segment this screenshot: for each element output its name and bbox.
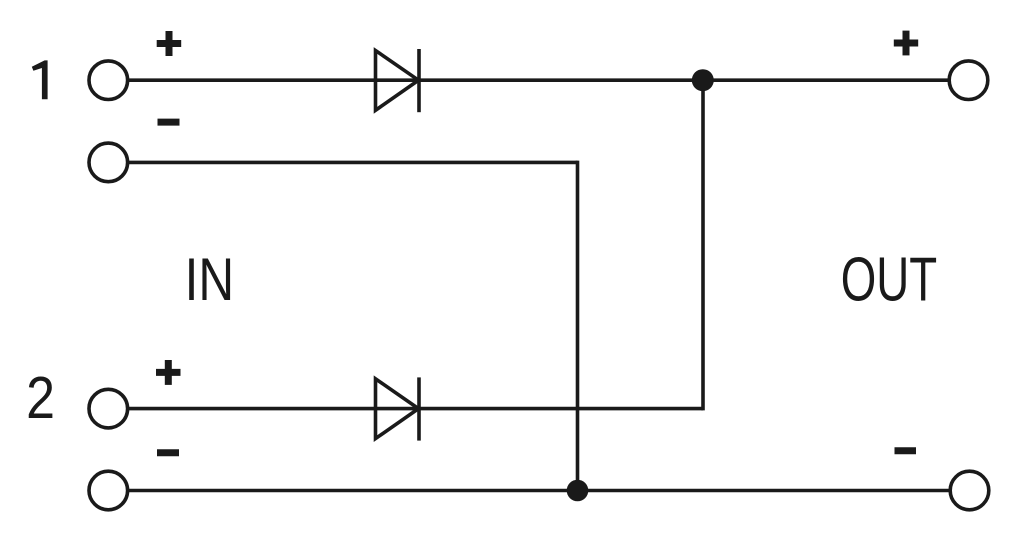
junction node B — [567, 480, 589, 502]
terminal circle IN1+ — [89, 61, 128, 100]
diode D2 cathode bar — [417, 377, 421, 440]
wire IN2+ horizontal — [108, 407, 703, 411]
minus sign IN1- — [158, 119, 180, 126]
wire IN1- vertical drop to node B — [576, 161, 580, 491]
terminal circle OUT- — [950, 471, 989, 510]
terminal circle IN2+ — [89, 389, 128, 428]
plus sign OUT+ — [894, 31, 918, 56]
svg-text:2: 2 — [26, 365, 55, 431]
minus sign OUT- — [895, 447, 917, 454]
terminal circle IN1- — [89, 143, 128, 182]
terminal circle OUT+ — [949, 61, 988, 100]
terminal circle IN2- — [89, 471, 128, 510]
diode D1 triangle — [376, 51, 419, 111]
junction node A — [692, 69, 714, 91]
terminal label 1 — [32, 60, 48, 99]
svg-text:OUT: OUT — [841, 245, 937, 315]
plus sign IN1+ — [157, 31, 182, 56]
minus sign IN2- — [157, 449, 179, 456]
diode D2 triangle — [376, 379, 419, 439]
plus sign IN2+ — [156, 360, 181, 385]
wire node A vertical to IN2+ — [701, 80, 705, 410]
wire IN1- horizontal — [108, 161, 578, 165]
svg-text:IN: IN — [185, 246, 235, 313]
diode D1 cathode bar — [417, 49, 421, 112]
wire IN2- to OUT- — [108, 489, 970, 493]
wire IN1+ to OUT+ — [108, 78, 969, 82]
